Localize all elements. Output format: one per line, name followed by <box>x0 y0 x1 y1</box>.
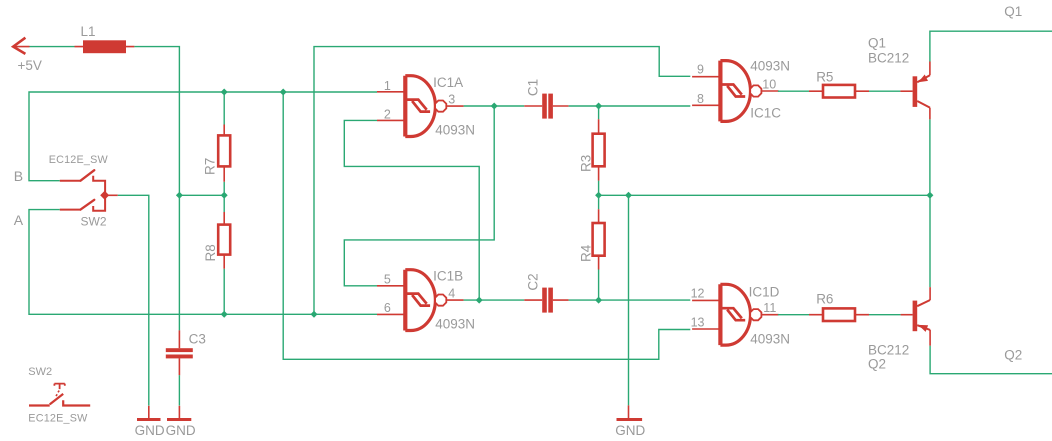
wire L1 to corner, down to C3 <box>134 47 179 331</box>
svg-text:B: B <box>14 168 23 184</box>
svg-text:13: 13 <box>691 316 705 330</box>
svg-text:1: 1 <box>384 79 391 93</box>
svg-text:L1: L1 <box>81 24 96 39</box>
svg-text:R3: R3 <box>579 155 594 172</box>
junction mid rail to GND <box>625 192 632 199</box>
ground GND1 <box>135 406 165 438</box>
svg-text:GND: GND <box>615 423 645 438</box>
svg-text:5: 5 <box>384 272 391 286</box>
svg-text:GND: GND <box>166 423 196 438</box>
svg-text:R8: R8 <box>203 244 218 261</box>
svg-text:4093N: 4093N <box>750 332 790 347</box>
svg-text:IC1C: IC1C <box>750 106 781 121</box>
svg-text:IC1D: IC1D <box>749 285 780 300</box>
wire IC1C out to R5 <box>778 90 809 92</box>
ground GND2 <box>166 406 196 438</box>
svg-text:4: 4 <box>448 286 455 300</box>
svg-text:BC212: BC212 <box>868 51 909 66</box>
junction R3/R4 mid <box>595 192 602 199</box>
wire net B: pin1 rail, down to switch B contact <box>29 92 377 181</box>
svg-text:4093N: 4093N <box>435 123 475 138</box>
svg-text:Q2: Q2 <box>1004 348 1022 363</box>
svg-text:IC1A: IC1A <box>433 75 463 90</box>
transistor Q1 BC212 <box>868 36 930 120</box>
inductor L1 <box>75 24 135 53</box>
wire net A vertical branch to IC1C pin 9 <box>314 47 690 315</box>
svg-text:10: 10 <box>762 77 776 91</box>
svg-text:Q2: Q2 <box>868 356 886 371</box>
junction IC1B output <box>476 297 483 304</box>
capacitor C3 <box>166 330 206 375</box>
svg-text:+5V: +5V <box>18 58 42 73</box>
wire R5 to Q1 base <box>869 90 900 92</box>
supply arrow +5V <box>13 38 42 73</box>
wire switch common to GND <box>118 195 149 405</box>
junction R8 bottom on net A <box>221 311 228 318</box>
wire mid rail R3/R4 to transistors <box>599 194 930 196</box>
wire IC1D out to R6 <box>778 314 809 316</box>
svg-text:SW2: SW2 <box>81 215 107 229</box>
svg-text:R5: R5 <box>816 70 833 85</box>
resistor R5 <box>809 70 869 98</box>
wire cross-couple pin2 to out4 <box>344 120 479 300</box>
NAND gate IC1B <box>377 268 475 331</box>
wire net B vertical branch to IC1D pin 13 <box>283 92 690 359</box>
small switch actuator symbol SW2 <box>28 366 90 425</box>
svg-text:C3: C3 <box>189 331 206 346</box>
wire R6 to Q2 base <box>869 314 901 316</box>
svg-text:11: 11 <box>763 301 776 315</box>
resistor R6 <box>809 291 869 321</box>
wire C3 bottom to GND <box>178 375 180 405</box>
svg-text:Q1: Q1 <box>868 36 886 51</box>
wire IC1A output to C1 <box>464 105 525 107</box>
wire mid to GND <box>628 195 630 405</box>
wire Q1 collector to mid rail <box>929 119 931 195</box>
svg-text:4093N: 4093N <box>435 317 475 332</box>
NAND gate IC1D <box>691 284 790 346</box>
svg-text:BC212: BC212 <box>868 342 909 357</box>
svg-text:EC12E_SW: EC12E_SW <box>49 154 109 166</box>
junction net A branch <box>311 311 318 318</box>
wire C1 to IC1C pin 8 <box>569 105 691 107</box>
wire C2 to IC1D pin 12 <box>569 299 691 301</box>
svg-text:R7: R7 <box>203 158 218 175</box>
junction R3 top <box>595 103 602 110</box>
junction net B branch <box>280 89 287 96</box>
svg-text:SW2: SW2 <box>28 366 52 378</box>
svg-text:2: 2 <box>384 107 391 121</box>
svg-text:A: A <box>14 212 24 228</box>
ground GND3 <box>615 405 645 437</box>
NAND gate IC1A <box>377 75 475 138</box>
capacitor C1 <box>524 79 568 119</box>
svg-text:Q1: Q1 <box>1004 4 1022 19</box>
wire +5V left of L1 <box>30 46 75 48</box>
switch SW2 (EC12E_SW) <box>49 154 118 228</box>
wire Q2 emitter to Q2 connector rail <box>930 346 1052 374</box>
svg-text:12: 12 <box>691 287 705 301</box>
NAND gate IC1C <box>692 59 790 122</box>
junction +5V at mid link <box>176 192 183 199</box>
resistor R7 <box>203 92 231 195</box>
wire IC1B output to C2 <box>464 299 525 301</box>
svg-text:4093N: 4093N <box>750 59 790 74</box>
junction R4 bottom <box>595 297 602 304</box>
svg-text:GND: GND <box>135 423 165 438</box>
svg-text:R6: R6 <box>816 291 833 306</box>
wire cross-couple out1 to pin5 <box>344 106 494 286</box>
svg-text:C1: C1 <box>526 79 541 96</box>
svg-text:R4: R4 <box>579 244 594 262</box>
wire Q2 collector to mid rail <box>929 195 931 287</box>
svg-text:6: 6 <box>384 301 391 315</box>
svg-text:8: 8 <box>697 92 704 106</box>
capacitor C2 <box>524 273 568 312</box>
wire Q1 emitter to Q1 connector rail <box>930 31 1052 61</box>
transistor Q2 BC212 <box>868 287 930 371</box>
resistor R8 <box>203 195 230 314</box>
svg-text:IC1B: IC1B <box>433 268 463 283</box>
wire net A: from switch A contact down and right to pin 6 <box>29 210 377 315</box>
junction IC1A output <box>491 103 498 110</box>
svg-text:EC12E_SW: EC12E_SW <box>28 413 88 425</box>
junction Q1/Q2 at mid rail <box>926 192 933 199</box>
junction R7 top on net B <box>221 89 228 96</box>
resistor R4 <box>579 195 605 300</box>
svg-text:3: 3 <box>448 92 455 106</box>
wire +5V mid link <box>179 194 224 196</box>
svg-text:9: 9 <box>697 63 704 77</box>
svg-text:C2: C2 <box>526 273 541 290</box>
resistor R3 <box>579 106 605 195</box>
junction R7/R8 at mid link <box>221 192 228 199</box>
